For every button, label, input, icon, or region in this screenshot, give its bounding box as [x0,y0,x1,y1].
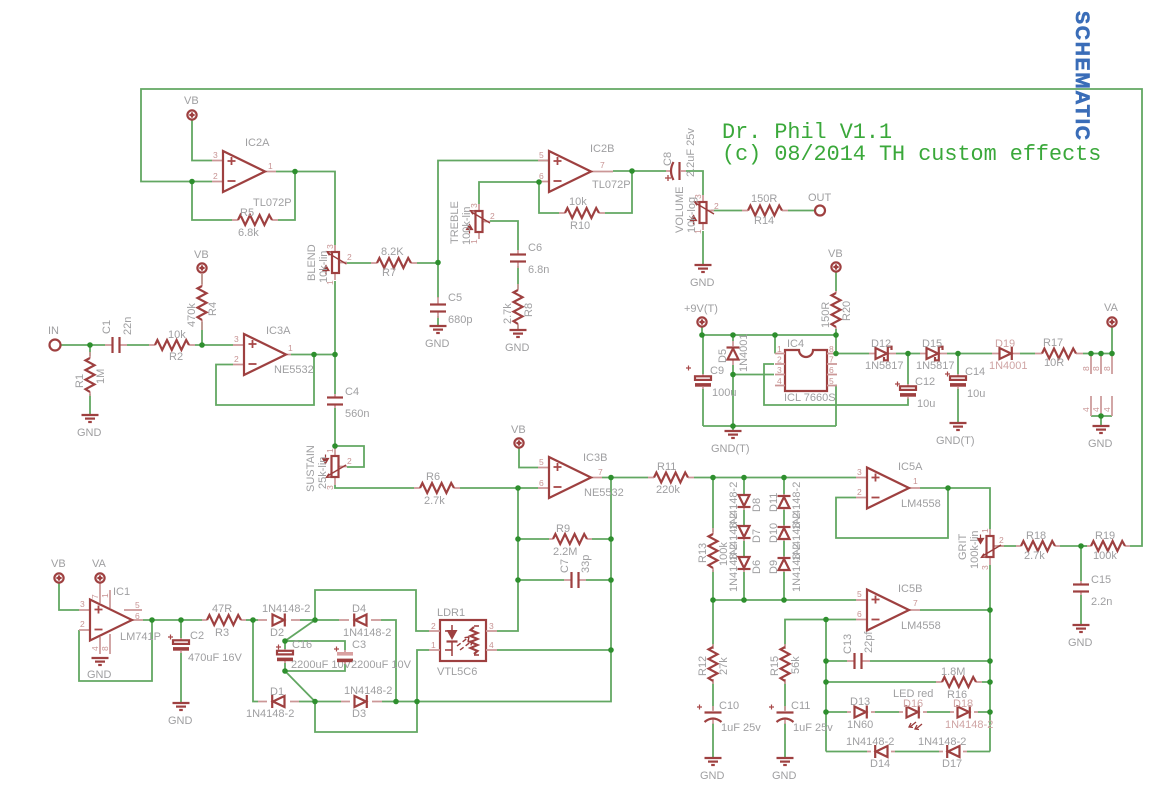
svg-text:R17: R17 [1043,337,1063,349]
wire IC5A feedback loop [836,488,948,538]
svg-text:5: 5 [539,457,544,467]
capacitor C9 100u [686,365,736,399]
svg-text:VA: VA [1104,302,1119,314]
wire R5 right leg to IC2A output [278,172,295,221]
wire R3 to D2 node [246,619,258,621]
wire C6 to R8 [517,266,519,289]
op-amp IC2A [212,137,292,209]
svg-text:GND: GND [1088,438,1113,450]
svg-text:10R: 10R [1044,357,1064,369]
resistor R2 [149,329,195,363]
svg-text:D8: D8 [751,498,763,512]
wire R10 left leg [539,182,559,213]
wire diode column left legs [743,478,745,601]
svg-text:2.7k: 2.7k [1024,550,1045,562]
wire C13 row [826,660,990,662]
svg-text:1: 1 [980,528,990,533]
wire D1 right to node [299,701,315,703]
wire D15 to C14 node [947,353,992,355]
svg-text:2: 2 [80,619,85,629]
svg-text:R10: R10 [570,220,590,232]
svg-text:7: 7 [829,355,834,365]
capacitor C15 2.2n [1073,574,1112,608]
svg-text:6: 6 [829,365,834,375]
wire IC1 feedback loop [79,620,152,681]
capacitor C1 22n [101,317,134,353]
capacitor C11 1uF [769,700,833,734]
wire C12 top [907,354,909,385]
svg-text:10k: 10k [168,329,186,341]
svg-text:R4: R4 [207,302,219,316]
resistor R8 vertical [502,284,535,330]
wire C7 row [518,579,611,581]
wire SUSTAIN wiper loop [335,446,364,467]
svg-text:3: 3 [489,621,494,631]
svg-text:4: 4 [1091,407,1101,412]
diode D11 [768,482,803,530]
svg-text:6: 6 [857,609,862,619]
svg-text:GND: GND [700,770,725,782]
svg-text:2: 2 [347,456,352,466]
svg-text:IC2B: IC2B [590,143,614,155]
svg-text:1uF 25v: 1uF 25v [793,722,833,734]
svg-text:R2: R2 [169,351,183,363]
svg-text:1N4148-2: 1N4148-2 [945,719,993,731]
svg-text:22n: 22n [122,317,134,335]
svg-text:47R: 47R [212,603,232,615]
svg-text:LM4558: LM4558 [901,498,941,510]
svg-text:GND: GND [505,342,530,354]
svg-text:C2: C2 [190,630,204,642]
potentiometer VOLUME [674,187,719,234]
op-amp IC5B [856,583,941,632]
supply VB node 3 [511,424,526,448]
svg-text:1.8M: 1.8M [941,666,965,678]
diode D19 [989,338,1028,372]
svg-text:3: 3 [857,467,862,477]
gnd below C15 [1068,625,1093,649]
resistor R3 [202,603,246,639]
svg-text:TL072P: TL072P [592,179,631,191]
wire IC3B out to R11 [602,477,648,479]
wire R2 to IC3A plus [195,344,233,346]
svg-text:VB: VB [511,424,526,436]
wire R1 to gnd [89,394,91,415]
svg-text:100k-lin: 100k-lin [969,530,981,569]
resistor R11 [648,461,694,496]
op-amp IC3A [233,325,314,376]
svg-text:GND: GND [1068,637,1093,649]
svg-text:2: 2 [857,487,862,497]
wire VB1 to IC2A plus [192,120,212,161]
potentiometer BLEND [306,244,352,285]
svg-text:3: 3 [325,244,335,249]
wire R12 legs [712,600,714,710]
wire gnd(T) bottom rail [703,426,836,431]
svg-text:R13: R13 [697,543,709,563]
svg-text:2: 2 [431,621,436,631]
svg-text:IC3A: IC3A [266,325,291,337]
svg-text:470k: 470k [186,303,198,327]
svg-text:1N4001: 1N4001 [738,333,750,372]
svg-text:1: 1 [913,476,918,486]
svg-text:VB: VB [51,558,66,570]
svg-text:1N4148-2: 1N4148-2 [262,603,310,615]
svg-text:150R: 150R [820,302,832,328]
svg-text:1N4148-2: 1N4148-2 [343,627,391,639]
wire GRIT wiper to R18 [997,545,1016,547]
svg-text:VA: VA [92,558,107,570]
supply VA right [1104,302,1119,327]
svg-text:100k: 100k [1093,550,1117,562]
svg-text:D12: D12 [871,338,891,350]
wire SUSTAIN pin3 to R6 [335,485,414,488]
svg-text:2: 2 [714,201,719,211]
svg-text:D16: D16 [903,698,923,710]
wire IC3A out to BLEND pin1 node [291,281,335,355]
wire D5 top [732,335,734,341]
svg-text:2: 2 [490,211,495,221]
svg-text:D7: D7 [751,529,763,543]
svg-text:OUT: OUT [808,192,832,204]
wire TREBLE wiper to C6 [490,221,518,250]
wire R18 to C15 node [1060,545,1087,547]
svg-text:D5: D5 [717,349,729,363]
wire D4 left leg down [381,620,396,702]
svg-text:R6: R6 [426,471,440,483]
svg-text:D10: D10 [768,523,780,543]
svg-text:R19: R19 [1095,530,1115,542]
resistor R7 [371,246,417,279]
svg-text:R15: R15 [769,656,781,676]
wire rail x611 down to bottom rail [382,650,611,702]
wire IC4 pin1 to rail [774,335,776,354]
svg-text:LM4558: LM4558 [901,620,941,632]
wire D12 to D15 node [896,353,920,355]
LED D16 red [893,688,933,730]
svg-text:2: 2 [777,355,782,365]
gnd below R8 [505,330,530,354]
svg-text:GND: GND [87,669,112,681]
diode D5 vertical [717,333,750,372]
svg-text:R7: R7 [382,267,396,279]
svg-text:C15: C15 [1091,574,1111,586]
svg-text:IN: IN [48,325,59,337]
supply +9V(T) [684,303,718,327]
gnd below C2 [168,703,193,727]
wire R16 row [826,681,990,683]
svg-text:6.8k: 6.8k [238,227,259,239]
svg-text:8: 8 [1081,366,1091,371]
svg-text:33p: 33p [580,555,592,573]
wire C14 top [957,354,959,375]
svg-text:C13: C13 [842,634,854,654]
wire IC5B plus rail [713,599,856,601]
wire LDR pin2 loop [315,590,429,631]
wire VB4 to R20 [835,272,837,291]
op-amp IC3B [538,452,624,499]
wire C5 to gnd [437,316,439,326]
svg-text:C5: C5 [448,292,462,304]
diode D15 schottky [916,338,955,372]
svg-text:2.7k: 2.7k [502,303,514,324]
wire C10 to gnd [712,723,714,758]
wire C16 bottom link to C3 [285,663,345,671]
capacitor C8 polarized [662,128,697,181]
svg-text:IC1: IC1 [113,586,130,598]
svg-text:1N60: 1N60 [847,719,873,731]
svg-text:D2: D2 [270,627,284,639]
svg-text:8: 8 [829,344,834,354]
wire GRIT pin3 down [989,565,991,610]
wire C14 to gnd(T) [957,389,959,423]
gnd(T) below D5 node [711,431,750,455]
svg-text:7: 7 [600,160,605,170]
svg-text:NE5532: NE5532 [584,487,624,499]
wire right rail x611 [610,478,612,651]
capacitor C6 6.8n [510,242,549,276]
wire C8 to VOLUME pin3 [686,171,703,195]
svg-text:1: 1 [268,161,273,171]
svg-text:VB: VB [194,249,209,261]
svg-text:3: 3 [213,150,218,160]
svg-text:(c) 08/2014 TH custom effects: (c) 08/2014 TH custom effects [722,142,1101,167]
wire diode row lower [826,751,990,753]
wire diode row upper [826,711,990,713]
diode D18 [945,698,993,731]
diode D13 1N60 [847,696,875,731]
svg-text:C16: C16 [292,639,312,651]
OUT terminal [808,192,832,216]
svg-text:ICL 7660S: ICL 7660S [784,392,836,404]
capacitor C10 1uF [697,700,761,734]
svg-text:8.2K: 8.2K [381,246,404,258]
supply VB left [51,558,66,583]
potentiometer SUSTAIN [305,445,352,492]
resistor R20 vertical [820,291,853,329]
svg-text:56k: 56k [790,656,802,674]
op-amp power pins 8 [1081,354,1112,374]
wire IC4 pin3 to D5 node [733,374,774,376]
wire R17 to VA node [1083,327,1112,354]
svg-text:C6: C6 [528,242,542,254]
gnd(T) below C14 [936,423,975,447]
gnd below power pins [1088,426,1113,450]
svg-text:D15: D15 [922,338,942,350]
diode D8 [728,482,763,530]
wire pin8 to D12 [837,353,869,355]
svg-text:1N4148-2: 1N4148-2 [728,544,740,592]
wire IC2A output to BLEND pin3 [276,172,335,246]
svg-text:IC5B: IC5B [898,583,922,595]
svg-text:1N4001: 1N4001 [989,360,1028,372]
svg-text:R8: R8 [523,303,535,317]
resistor R12 vertical [697,644,730,684]
wire right rail x990 [989,610,991,752]
svg-text:5: 5 [857,589,862,599]
svg-text:D3: D3 [352,708,366,720]
svg-text:1N4148-2: 1N4148-2 [791,544,803,592]
svg-text:D9: D9 [768,560,780,574]
wire D19 to R17 [1020,353,1035,355]
wire IC1 out to R3 [143,619,202,621]
svg-text:7: 7 [913,598,918,608]
capacitor C14 10u [945,366,985,400]
svg-text:8: 8 [1102,366,1112,371]
svg-text:560n: 560n [345,408,369,420]
gnd below VOLUME [690,265,715,289]
resistor R13 vertical [697,528,730,572]
svg-text:4: 4 [90,646,100,651]
resistor R4 vertical [186,273,219,330]
diode D4 [339,603,391,639]
svg-text:10u: 10u [917,398,935,410]
wire R20 to rail [835,329,837,335]
svg-text:R18: R18 [1026,530,1046,542]
diode D7 [728,513,763,561]
wire node to C4 [334,355,336,395]
svg-text:27k: 27k [718,657,730,675]
resistor R1 vertical [74,352,107,396]
svg-text:5: 5 [539,150,544,160]
diode D2 [258,603,310,639]
svg-text:GND(T): GND(T) [711,443,750,455]
svg-text:6: 6 [539,478,544,488]
capacitor C2 470uF [168,630,242,664]
svg-text:8: 8 [100,646,110,651]
resistor R17 [1035,337,1083,369]
wire feedback loop top border [141,89,1142,546]
wire IC5B out to right rail [920,609,990,611]
svg-text:1N4148-2: 1N4148-2 [344,685,392,697]
wire minus rail x826 [825,620,827,752]
svg-text:R14: R14 [754,215,774,227]
wire IC5B minus to R15 [785,620,856,648]
capacitor C16 [276,639,352,671]
svg-text:1: 1 [100,593,110,598]
wire opamp pwr pins 4 to gnd [1091,416,1112,426]
wire R9 row [518,538,611,540]
wire VOLUME wiper to R14 [711,210,742,212]
gnd below C10 [700,758,725,782]
svg-text:LM741P: LM741P [120,631,161,643]
svg-text:10k-lin: 10k-lin [318,251,330,283]
svg-text:SUSTAIN: SUSTAIN [305,445,317,492]
svg-text:TREBLE: TREBLE [449,201,461,244]
svg-text:7: 7 [598,467,603,477]
wire R8 to gnd [517,325,519,330]
wire D1 left to left leg [253,620,258,702]
wire C4 to SUSTAIN node [334,408,336,447]
svg-text:22pf: 22pf [863,631,875,653]
wire C9 top [702,335,704,374]
svg-text:C12: C12 [915,376,935,388]
svg-text:R1: R1 [74,374,86,388]
svg-text:1N5817: 1N5817 [865,360,904,372]
potentiometer GRIT [957,528,1004,570]
wire IN to C1 [61,344,105,346]
svg-text:2.2M: 2.2M [553,546,577,558]
svg-text:1: 1 [325,448,335,453]
wire VB2 to R4 [201,273,203,284]
svg-text:3: 3 [980,565,990,570]
svg-text:4: 4 [1102,407,1112,412]
svg-text:1N4148-2: 1N4148-2 [918,736,966,748]
diode D3 [341,685,392,720]
resistor R16 [936,666,982,701]
diode D14 [846,736,895,770]
svg-text:D6: D6 [751,560,763,574]
svg-text:C3: C3 [352,639,366,651]
svg-text:1M: 1M [95,369,107,384]
wire C16 bottom diagonal [285,671,315,702]
op-amp IC5A [856,461,941,510]
wire C2 to gnd [180,653,182,703]
svg-text:R9: R9 [556,523,570,535]
wire IC1 VB to plus [59,583,79,610]
wire node to D4 [315,619,339,621]
capacitor C12 10u [895,376,935,410]
svg-text:GRIT: GRIT [957,533,969,560]
svg-text:C10: C10 [719,700,739,712]
svg-text:VB: VB [184,95,199,107]
svg-text:C1: C1 [101,320,113,334]
svg-text:2: 2 [234,354,239,364]
capacitor C3 [334,639,412,671]
svg-text:220k: 220k [656,484,680,496]
svg-text:1: 1 [288,343,293,353]
svg-text:100k-lin: 100k-lin [461,206,473,245]
wire R14 to OUT [788,210,815,212]
wire IC2B out to C8 [613,170,666,172]
svg-text:+9V(T): +9V(T) [684,303,718,315]
svg-text:VB: VB [828,248,843,260]
supply VB node 2 [194,249,209,273]
diode D6 [728,544,763,592]
svg-text:2.2uF 25v: 2.2uF 25v [685,128,697,177]
svg-text:GND: GND [690,277,715,289]
svg-text:D14: D14 [870,758,890,770]
wire +9V rail [702,327,836,354]
wire LDR pin4 to rail [497,649,611,651]
diode D12 schottky [865,338,904,372]
svg-text:2.7k: 2.7k [424,495,445,507]
svg-text:R3: R3 [215,627,229,639]
wire VB3 to IC3B plus [519,448,538,468]
svg-text:10u: 10u [967,388,985,400]
svg-text:R11: R11 [657,461,676,473]
wire C16 top diagonal [285,620,315,641]
svg-text:D18: D18 [953,698,973,710]
svg-text:BLEND: BLEND [306,244,318,281]
gnd below C5 [425,326,450,350]
svg-text:6: 6 [135,611,140,621]
svg-text:IC4: IC4 [787,338,804,350]
svg-text:R20: R20 [841,301,853,321]
wire R19 right [1081,545,1087,547]
IN terminal [48,325,61,351]
svg-text:D19: D19 [995,338,1015,350]
svg-text:150R: 150R [751,193,777,205]
gnd below C11 [772,758,797,782]
resistor R6 [414,471,460,507]
wire R11 to IC5A plus rail [694,477,856,479]
svg-text:IC2A: IC2A [245,137,270,149]
svg-text:D13: D13 [850,696,870,708]
IC4 ICL7660S [775,338,837,404]
diode D9 [768,544,803,592]
svg-text:NE5532: NE5532 [274,364,314,376]
